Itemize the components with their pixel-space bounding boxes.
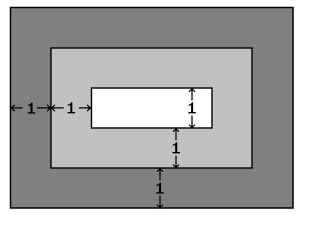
wire: arrow C shaft xyxy=(191,89,193,128)
arrowhead A right xyxy=(47,105,51,112)
arrowhead D down xyxy=(173,165,179,168)
label 1 (light-gray bottom margin) xyxy=(172,142,179,153)
label 1 (white box height) xyxy=(188,102,195,113)
label 1 (outer left margin) xyxy=(28,102,35,113)
vertical arrow E (light-gray bottom to outer bottom) xyxy=(157,169,163,208)
arrowhead C up xyxy=(189,89,195,92)
middle light-gray rectangle xyxy=(51,48,252,168)
horizontal arrow B (light-gray edge to white edge) xyxy=(51,105,90,112)
arrowhead C down xyxy=(189,125,195,128)
arrowhead E down xyxy=(157,205,163,208)
wire: arrow D shaft xyxy=(175,129,177,168)
wire: arrow A shaft xyxy=(11,107,51,109)
inner white rectangle xyxy=(92,88,213,128)
arrowhead B left xyxy=(51,105,55,112)
arrowhead B right xyxy=(87,105,91,112)
wire: arrow B shaft xyxy=(51,107,90,109)
label 1 (second left margin) xyxy=(68,102,75,113)
arrowhead D up xyxy=(173,129,179,132)
wire: arrow E shaft xyxy=(159,169,161,208)
label 1 (outer bottom margin) xyxy=(156,182,163,193)
outer dark-gray rectangle xyxy=(11,8,294,209)
arrowhead E up xyxy=(157,169,163,172)
vertical arrow C (height of white rectangle) xyxy=(189,89,195,128)
horizontal arrow A (outer border to light-gray edge) xyxy=(11,105,51,112)
arrowhead A left xyxy=(11,105,15,112)
vertical arrow D (white bottom to light-gray bottom) xyxy=(173,129,179,168)
